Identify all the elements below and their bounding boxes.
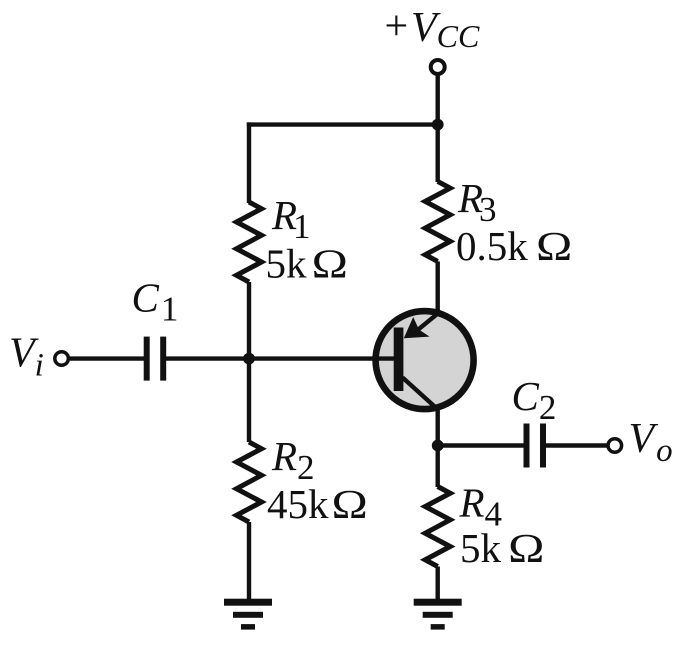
transistor emitter arrow (points into base) <box>404 317 430 338</box>
ground (right) <box>414 599 462 630</box>
wire C2 to Vo terminal <box>545 443 608 447</box>
wire node B down to R4 <box>436 446 440 488</box>
ground (left) <box>224 599 272 630</box>
junction dot top <box>432 119 444 131</box>
svg-text:Ω: Ω <box>332 481 368 527</box>
wire node A down to R2 <box>247 359 251 442</box>
wire C1 to node A <box>166 356 250 360</box>
wire node B to C2 <box>438 443 525 447</box>
wire transistor bottom to node B <box>436 407 440 446</box>
terminal Vi <box>55 352 69 366</box>
wire Vi to C1 <box>70 356 145 360</box>
svg-text:Ω: Ω <box>508 525 544 571</box>
svg-text:5k: 5k <box>266 241 308 287</box>
svg-text:+: + <box>385 4 409 50</box>
resistor R3 <box>425 181 450 261</box>
node A junction dot <box>243 353 255 365</box>
capacitor C2 <box>524 424 547 468</box>
wire R3 bottom to transistor collector <box>436 261 440 313</box>
wire R2 bottom to ground <box>247 522 251 601</box>
resistor R1 <box>237 202 262 282</box>
transistor Q1 body <box>376 311 474 409</box>
svg-text:Ω: Ω <box>536 223 572 269</box>
wire junction down to R3 <box>436 125 440 182</box>
wire node A to transistor base <box>249 356 399 360</box>
resistor R4 <box>425 487 450 567</box>
wire VCC terminal down to junction <box>436 75 440 127</box>
terminal Vo <box>608 439 622 453</box>
svg-text:0.5k: 0.5k <box>456 223 528 269</box>
transistor emitter lead (bottom diagonal) <box>403 378 446 416</box>
svg-text:45k: 45k <box>267 481 329 527</box>
transistor base bar <box>394 328 404 392</box>
resistor R2 <box>237 442 262 522</box>
svg-text:Ω: Ω <box>312 241 348 287</box>
node B junction dot <box>432 440 444 452</box>
wire base inside body <box>372 356 399 360</box>
wire R4 bottom to ground <box>436 567 440 602</box>
wire left column vertical (junction corner down to R1 top) <box>247 122 251 203</box>
transistor collector lead (top diagonal) <box>419 307 447 330</box>
svg-text:5k: 5k <box>460 525 502 571</box>
wire top horizontal from R1 column to VCC column <box>247 122 438 126</box>
capacitor C1 <box>144 337 167 381</box>
terminal +VCC <box>431 60 445 74</box>
wire R1 bottom to node A <box>247 282 251 359</box>
